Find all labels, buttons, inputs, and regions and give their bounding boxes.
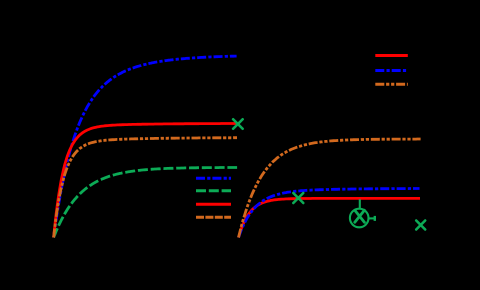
curve orange-right (dash-dot-dot) [239, 139, 421, 238]
marker X right lower [416, 221, 425, 230]
curve green-left (dashed) [54, 168, 238, 238]
annotation circle-X marker [350, 209, 369, 228]
curve orange-left (dash-dot-dot) [54, 138, 237, 238]
legend-right line 3 orange dash-dot-dot [375, 83, 408, 86]
legend-left line 4 orange dashed [196, 216, 231, 219]
annotation leader line vertical to red curve [359, 199, 361, 208]
marker X on right red curve [293, 193, 303, 203]
annotation leader line horizontal with end cap [369, 217, 375, 219]
curve blue-left (dash-dot) [54, 56, 237, 237]
curve blue-right (dash-dot) [239, 189, 420, 238]
legend-right line 2 blue dash-dot [375, 69, 408, 72]
legend-left line 2 green dashed [196, 189, 231, 192]
curve red-left (solid) [54, 124, 236, 238]
marker X at end of left red curve [233, 119, 243, 129]
legend-left line 3 red solid [196, 203, 231, 206]
curve red-right (solid) [239, 198, 421, 237]
legend-left line 1 blue dashed [196, 177, 231, 180]
legend-right line 1 red solid [375, 54, 408, 57]
